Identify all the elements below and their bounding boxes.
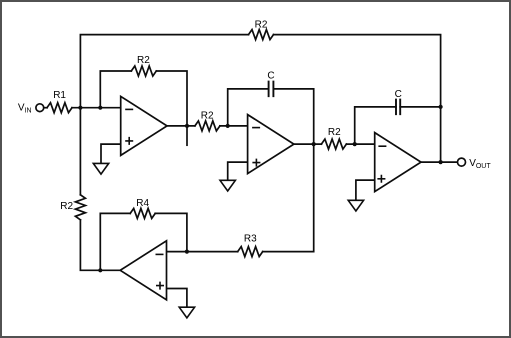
resistor R1 bbox=[47, 103, 72, 113]
op-amp U4 plus bbox=[156, 282, 164, 290]
resistor R2 (U1 feedback) bbox=[131, 66, 156, 76]
op-amp U4 minus bbox=[156, 253, 164, 255]
op-amp U1 bbox=[121, 96, 167, 155]
wire U1 output rail bbox=[167, 125, 248, 127]
terminal VOUT bbox=[458, 158, 466, 166]
node B (U1 inverting) bbox=[98, 106, 102, 110]
resistor R2 (left vertical) bbox=[75, 195, 85, 220]
op-amp U3 minus bbox=[378, 145, 386, 147]
node C2 right junction bbox=[439, 105, 443, 109]
resistor R4 bbox=[130, 208, 155, 218]
wire left vertical branch with R2 to bottom inverter bbox=[80, 108, 120, 271]
wire stub below U1 output node bbox=[186, 126, 188, 145]
wire U1 non-inverting input to ground bbox=[101, 144, 121, 163]
wire top global feedback loop bbox=[80, 35, 440, 163]
wire U4 feedback loop R4 bbox=[100, 213, 187, 270]
wire U3 non-inverting input to ground bbox=[356, 180, 375, 200]
op-amp U2 bbox=[248, 115, 294, 174]
ground (U4 non-inverting) bbox=[179, 307, 194, 318]
svg-text:R4: R4 bbox=[136, 198, 149, 209]
node A (input summing) bbox=[78, 106, 82, 110]
wire U3 output to VOUT terminal bbox=[421, 161, 458, 163]
svg-text:R2: R2 bbox=[255, 19, 268, 30]
ground (U3 non-inverting) bbox=[348, 200, 363, 211]
ground (U2 non-inverting) bbox=[220, 180, 235, 191]
wire U2 capacitor feedback loop bbox=[228, 89, 314, 144]
resistor R3 bbox=[238, 247, 263, 257]
op-amp U2 plus bbox=[252, 159, 260, 167]
svg-text:R1: R1 bbox=[53, 90, 66, 101]
node U2 output bbox=[312, 142, 316, 146]
wire U1 feedback loop bbox=[100, 71, 187, 126]
op-amp U3 bbox=[375, 133, 421, 192]
terminal VIN bbox=[36, 104, 44, 112]
ground (U1 non-inverting) bbox=[93, 163, 108, 174]
svg-text:R2: R2 bbox=[201, 111, 214, 122]
svg-text:R2: R2 bbox=[137, 55, 150, 66]
resistor R2 (series U2 to U3) bbox=[321, 139, 346, 149]
resistor R2 (series U1 to U2) bbox=[195, 121, 220, 131]
capacitor C (U2 feedback) bbox=[269, 82, 274, 97]
wire U3 capacitor feedback loop bbox=[355, 107, 441, 144]
resistor R2 (top feedback) bbox=[249, 30, 274, 40]
svg-text:C: C bbox=[395, 89, 402, 100]
op-amp U1 plus bbox=[125, 137, 133, 145]
svg-text:R2: R2 bbox=[328, 127, 341, 138]
node U2 inverting bbox=[226, 124, 230, 128]
wire U2 output rail bbox=[294, 143, 375, 145]
node U3 inverting bbox=[353, 142, 357, 146]
wire U2 non-inverting input to ground bbox=[228, 162, 248, 180]
op-amp U2 minus bbox=[252, 127, 260, 129]
wire U4 non-inverting input to ground bbox=[167, 289, 187, 308]
op-amp U4 (mirrored inverter) bbox=[120, 241, 166, 300]
svg-text:R3: R3 bbox=[244, 234, 257, 245]
node VOUT junction bbox=[439, 160, 443, 164]
wire VIN input rail bbox=[44, 107, 47, 109]
op-amp U1 minus bbox=[125, 108, 133, 110]
capacitor C (U3 feedback) bbox=[396, 100, 400, 115]
node U1 output bbox=[185, 124, 189, 128]
wire U2 output down to R3 rail bbox=[167, 144, 314, 252]
wire input node to op-amp U1 inverting input bbox=[72, 107, 121, 109]
svg-text:R2: R2 bbox=[60, 201, 73, 212]
node U4 output bbox=[98, 268, 102, 272]
node U4 inverting bbox=[185, 250, 189, 254]
svg-text:C: C bbox=[267, 70, 274, 81]
op-amp U3 plus bbox=[377, 175, 385, 183]
